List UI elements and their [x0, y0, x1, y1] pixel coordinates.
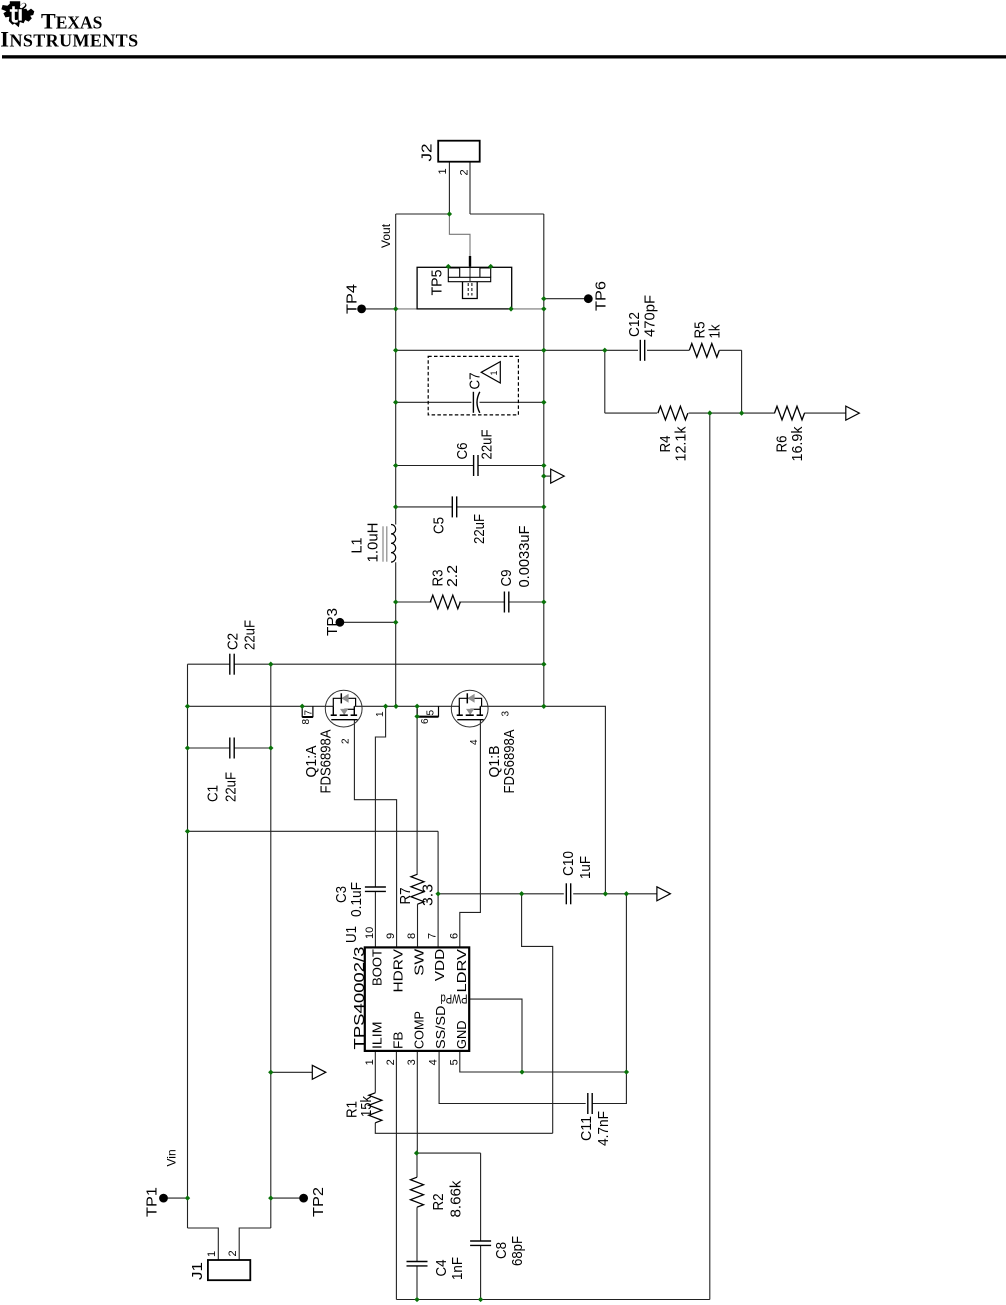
wire C10 row	[438, 893, 657, 895]
resistor R6	[775, 406, 805, 420]
svg-text:COMP: COMP	[411, 1011, 426, 1049]
capacitor C2	[230, 654, 234, 675]
node C5 row right	[541, 504, 546, 509]
wire SW row segment Vin to Q1:A drain	[188, 705, 334, 707]
wire rail to TP5 box	[396, 308, 417, 310]
node C12 branch	[602, 348, 607, 353]
wire TP5 feed dogleg	[449, 214, 470, 256]
wire J2 pin1 down	[448, 162, 450, 214]
node C6 row left	[393, 463, 398, 468]
wire J2 pin2 to GND rail	[470, 213, 544, 215]
svg-text:2: 2	[459, 169, 471, 175]
transistor Q1:A	[325, 690, 362, 727]
svg-text:TPS40002/3: TPS40002/3	[351, 947, 368, 1050]
wire PwPd to gnd row	[470, 999, 522, 1072]
node TP5 gnd rail	[541, 306, 546, 311]
capacitor C11	[588, 1093, 592, 1114]
ground symbol input rail	[312, 1065, 326, 1079]
svg-text:4.7nF: 4.7nF	[595, 1111, 612, 1146]
svg-text:6: 6	[420, 718, 431, 724]
connector J2	[438, 141, 480, 162]
wire SW to C3 to BOOT	[375, 706, 385, 947]
svg-text:TP5: TP5	[429, 270, 446, 296]
svg-text:FB: FB	[390, 1032, 405, 1050]
wire R1 to VDD link	[522, 894, 553, 1134]
svg-text:1: 1	[437, 168, 449, 174]
svg-text:U1: U1	[343, 926, 360, 943]
node SW R7 tap	[414, 704, 419, 709]
svg-text:2: 2	[227, 1250, 239, 1256]
svg-text:C12: C12	[626, 312, 643, 337]
svg-text:PWPd: PWPd	[441, 992, 468, 1007]
node Q1:B source gnd	[541, 704, 546, 709]
wire x626 vertical gnd	[592, 894, 626, 1104]
svg-text:C4: C4	[433, 1260, 450, 1277]
svg-text:1: 1	[364, 1059, 376, 1065]
svg-text:C1: C1	[205, 785, 222, 802]
svg-text:TP3: TP3	[324, 608, 341, 636]
wire C1 row	[188, 747, 271, 749]
node TP1	[185, 1195, 190, 1200]
wire C5 row	[396, 506, 544, 508]
svg-text:15k: 15k	[358, 1096, 375, 1117]
svg-text:VDD: VDD	[432, 949, 447, 982]
node R1 VDD link	[519, 891, 524, 896]
header rule	[2, 55, 1006, 58]
TI logo bug	[1, 1, 34, 27]
wire TP2	[271, 1197, 303, 1199]
wire Vout top row	[396, 349, 605, 351]
node TP6 tap	[541, 296, 546, 301]
wire TP5 box to GND rail	[512, 308, 544, 310]
capacitor C1	[230, 738, 234, 759]
svg-text:1: 1	[489, 370, 499, 375]
node gnd stub	[541, 473, 546, 478]
svg-text:2.2: 2.2	[444, 565, 461, 587]
svg-text:1: 1	[206, 1251, 218, 1257]
wire SS/SD to C11	[439, 1051, 586, 1104]
testpoint TP1	[159, 1194, 168, 1203]
wire GND mid rail	[270, 664, 272, 1228]
resistor R1	[369, 1093, 382, 1123]
node PwPd gnd	[519, 1069, 524, 1074]
svg-text:FDS6898A: FDS6898A	[318, 730, 335, 794]
node Vin rail SW row	[185, 704, 190, 709]
capacitor C6	[474, 455, 478, 476]
IC U1 box	[365, 947, 469, 1051]
resistor R5	[689, 344, 719, 358]
wire SW left rail below L1	[395, 562, 397, 706]
capacitor C8	[470, 1241, 491, 1245]
svg-text:3: 3	[501, 711, 512, 717]
svg-text:5: 5	[426, 710, 437, 716]
svg-text:4: 4	[469, 739, 480, 745]
svg-text:J1: J1	[189, 1262, 206, 1280]
svg-text:22uF: 22uF	[479, 430, 496, 460]
svg-text:FDS6898A: FDS6898A	[501, 730, 518, 794]
note triangle 1	[481, 362, 500, 383]
testpoint TP6	[584, 294, 593, 303]
wire C7 row	[396, 401, 544, 403]
svg-text:1k: 1k	[707, 324, 724, 338]
svg-text:C9: C9	[498, 570, 515, 587]
svg-text:6: 6	[448, 933, 460, 939]
wire VDD stub	[437, 894, 439, 948]
svg-text:TP6: TP6	[593, 281, 610, 311]
node C1 row left	[185, 745, 190, 750]
svg-text:12.1k: 12.1k	[673, 426, 690, 461]
svg-text:INSTRUMENTS: INSTRUMENTS	[0, 27, 138, 52]
svg-text:BOOT: BOOT	[370, 949, 385, 986]
wire HDRV to Q1:A gate	[354, 720, 396, 948]
capacitor C4	[407, 1262, 428, 1266]
svg-text:1: 1	[375, 711, 386, 717]
svg-text:TP4: TP4	[344, 284, 361, 314]
svg-text:3.3: 3.3	[420, 884, 437, 906]
capacitor C10	[566, 883, 570, 904]
svg-text:C5: C5	[431, 517, 448, 534]
svg-text:TP2: TP2	[310, 1187, 327, 1217]
node C5 row left	[393, 504, 398, 509]
node C4 FB row	[414, 1297, 419, 1302]
svg-text:22uF: 22uF	[471, 514, 488, 544]
wire GND right rail	[543, 214, 545, 706]
wire comp row	[417, 1152, 480, 1154]
svg-text:C11: C11	[578, 1116, 595, 1141]
transistor Q1:B	[451, 690, 488, 727]
node C8 FB row	[478, 1297, 483, 1302]
node 6/5 box	[414, 714, 419, 719]
wire R4 left vertical	[604, 350, 606, 413]
node C2 row rail	[541, 662, 546, 667]
node C6 row right	[541, 463, 546, 468]
svg-text:C2: C2	[225, 633, 242, 650]
node TP5 top right	[488, 264, 493, 269]
node Vout row left	[393, 348, 398, 353]
node C7 row right	[541, 400, 546, 405]
node J2 pin1	[447, 211, 452, 216]
svg-text:0.1uF: 0.1uF	[348, 882, 365, 917]
inductor L1	[383, 525, 396, 563]
svg-text:1.0uH: 1.0uH	[365, 523, 382, 563]
svg-text:7: 7	[427, 933, 439, 939]
svg-text:8: 8	[301, 719, 312, 725]
svg-text:ILIM: ILIM	[369, 1022, 384, 1050]
wire Vin row to VDD	[188, 831, 439, 894]
node Q1:A drain	[300, 704, 305, 709]
svg-text:5: 5	[448, 1059, 460, 1065]
node C11 gnd	[624, 1069, 629, 1074]
svg-text:TP1: TP1	[144, 1187, 161, 1217]
capacitor C9	[504, 592, 508, 613]
testpoint TP3	[336, 618, 345, 627]
capacitor C3	[365, 887, 386, 891]
node TP5 bottom right	[508, 306, 513, 311]
node C2 row gnd	[268, 662, 273, 667]
wire GND pin row	[460, 1051, 627, 1072]
resistor R3	[430, 595, 460, 609]
svg-text:C10: C10	[560, 851, 577, 876]
capacitor C5	[452, 496, 456, 517]
wire LDRV to Q1:B gate	[460, 720, 481, 948]
node Vin row831	[185, 829, 190, 834]
node R3 row left	[393, 599, 398, 604]
wire J2 pin2 down	[469, 162, 471, 214]
wire TP6	[544, 298, 588, 300]
svg-text:22uF: 22uF	[223, 772, 240, 802]
wire R3 C9 row	[396, 601, 544, 603]
wire Vout left rail upper	[395, 214, 397, 525]
node TP4 rail	[393, 306, 398, 311]
wire J1 pin1	[188, 1228, 219, 1260]
node Vout row right	[541, 348, 546, 353]
svg-text:8.66k: 8.66k	[448, 1180, 465, 1217]
svg-text:4: 4	[428, 1059, 440, 1065]
svg-text:2: 2	[341, 738, 352, 744]
testpoint TP2	[299, 1194, 308, 1203]
node SW rail join	[393, 704, 398, 709]
ground symbol right rail	[551, 469, 565, 483]
node C7 row left	[393, 400, 398, 405]
node TP5 top left	[446, 264, 451, 269]
wire Vout row to J2 pin1	[396, 213, 450, 215]
pin box 8/7 Q1:A	[302, 706, 313, 716]
wire R2 C4 chain	[416, 1153, 418, 1299]
svg-text:3: 3	[406, 1059, 418, 1065]
svg-text:7: 7	[304, 710, 315, 716]
resistor R7	[411, 874, 424, 904]
svg-text:R4: R4	[657, 436, 674, 453]
node COMP R2 C8	[414, 1150, 419, 1155]
svg-text:GND: GND	[454, 1021, 469, 1050]
svg-text:Vout: Vout	[379, 223, 393, 248]
testpoint TP5 jumper	[417, 256, 512, 309]
wire C2 row	[188, 663, 544, 665]
svg-text:L1: L1	[349, 538, 366, 554]
ground symbol C10 row	[657, 887, 671, 901]
pin box 6/5 Q1:B	[417, 706, 438, 716]
svg-text:C7: C7	[467, 373, 484, 390]
svg-text:470pF: 470pF	[642, 295, 659, 337]
svg-text:68pF: 68pF	[509, 1236, 526, 1266]
node dogleg C10 gnd	[603, 891, 608, 896]
svg-text:R7: R7	[397, 888, 414, 905]
svg-text:R2: R2	[430, 1194, 447, 1211]
svg-text:SS/SD: SS/SD	[433, 1006, 448, 1050]
svg-text:9: 9	[385, 933, 397, 939]
svg-text:22uF: 22uF	[242, 620, 259, 650]
wire FB stub	[395, 1051, 397, 1300]
note box C7 dashed	[428, 356, 518, 415]
wire COMP stub	[416, 1051, 418, 1153]
wire SW row segment Q1:A source to Q1:B drain	[354, 705, 459, 707]
wire FB bottom row	[396, 1299, 709, 1301]
testpoint TP4	[357, 305, 366, 314]
wire FB long vertical	[709, 413, 711, 1299]
svg-text:0.0033uF: 0.0033uF	[516, 526, 533, 588]
connector J1	[208, 1260, 250, 1280]
svg-text:10: 10	[364, 927, 376, 939]
wire SW row segment Q1:B source to GND	[480, 705, 544, 707]
svg-text:16.9k: 16.9k	[789, 426, 806, 461]
node Q1:A source SW	[383, 704, 388, 709]
wire SW to R7 to SW pin	[416, 706, 418, 947]
node TP2	[268, 1195, 273, 1200]
svg-text:Vin: Vin	[165, 1149, 179, 1166]
svg-text:8: 8	[406, 933, 418, 939]
node C1 row right	[268, 745, 273, 750]
wire Vin left rail	[187, 664, 189, 1228]
wire C6 row	[396, 465, 544, 467]
resistor R2	[411, 1177, 424, 1207]
svg-text:J2: J2	[419, 144, 436, 162]
wire TP4 to rail	[362, 308, 396, 310]
svg-text:2: 2	[385, 1059, 397, 1065]
node x626 C10 gnd	[624, 891, 629, 896]
wire Q1:B source gnd dogleg	[544, 706, 606, 894]
capacitor C12	[640, 340, 644, 361]
svg-text:C8: C8	[493, 1242, 510, 1259]
node VDD stub	[435, 891, 440, 896]
node R5 R6	[739, 410, 744, 415]
svg-text:1uF: 1uF	[577, 856, 594, 879]
wire ILIM R1	[375, 1051, 552, 1133]
wire TP1	[164, 1197, 188, 1199]
node C9 row right	[541, 599, 546, 604]
wire J1 pin2	[239, 1228, 271, 1260]
svg-text:1nF: 1nF	[449, 1257, 466, 1280]
wire TP3	[340, 621, 395, 623]
wire C8 chain	[480, 1153, 482, 1299]
node R4 R5 FB	[707, 410, 712, 415]
wire gnd stub right rail	[544, 475, 551, 477]
node input gnd arrow	[268, 1070, 273, 1075]
svg-text:R6: R6	[774, 436, 791, 453]
node TP3 rail	[393, 620, 398, 625]
svg-text:HDRV: HDRV	[391, 949, 406, 993]
wire gnd arrow input rail	[271, 1071, 313, 1073]
svg-text:C6: C6	[454, 443, 471, 460]
resistor R4	[658, 406, 688, 420]
wire C12 branch	[605, 350, 742, 413]
svg-text:SW: SW	[412, 948, 427, 976]
wire R4 R6 row	[605, 412, 846, 414]
capacitor C7 polarized	[473, 392, 479, 413]
net arrow after R6	[846, 406, 860, 420]
svg-text:LDRV: LDRV	[454, 949, 469, 993]
